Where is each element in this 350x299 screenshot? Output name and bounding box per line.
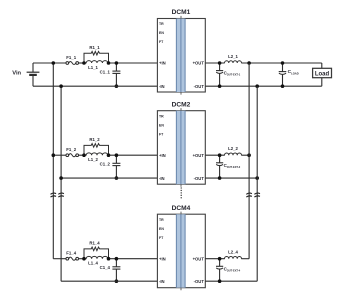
junction row1 COUT-EXT-1 bottom <box>218 84 222 88</box>
junction row2 COUT-EXT-2 bottom <box>218 176 222 180</box>
junction row2 + output bus <box>247 153 251 157</box>
fuse F1_4 <box>66 257 79 260</box>
wire row1 L2_1 to + bus <box>241 62 321 64</box>
svg-text:+IN: +IN <box>159 153 166 158</box>
wire row4 fuse to L1_4 <box>79 258 87 260</box>
wire input + bus <box>52 63 54 259</box>
svg-text:TR: TR <box>159 218 164 222</box>
junction row1 RL right node <box>107 61 111 65</box>
wire-break mark at x=257.2 <box>254 193 260 197</box>
svg-text:C1_2: C1_2 <box>100 162 111 167</box>
wire row4 +OUT to L2_4 <box>205 258 224 260</box>
svg-text:DCM1: DCM1 <box>172 9 191 16</box>
junction row2 C1_2 top <box>115 153 119 157</box>
svg-text:L2_1: L2_1 <box>228 54 238 59</box>
junction row1 RL left node <box>82 61 86 65</box>
svg-text:DCM4: DCM4 <box>172 205 191 212</box>
junction row1 + output bus <box>247 61 251 65</box>
op-amp-like module DCM1 <box>157 16 205 95</box>
junction row4 COUT-EXT-4 bottom <box>218 279 222 283</box>
junction row1 C1_1 top <box>115 61 119 65</box>
load box <box>313 68 332 77</box>
resistor R1_1 (parallel loop) <box>84 51 109 63</box>
capacitor CLOAD <box>279 63 287 86</box>
inductor L2_1 <box>225 61 242 63</box>
svg-text:EN: EN <box>159 123 164 127</box>
junction row2 RL left node <box>82 153 86 157</box>
capacitor COUT-EXT-1 <box>216 63 223 86</box>
svg-text:+OUT: +OUT <box>193 256 205 261</box>
fuse F1_1 <box>66 61 79 64</box>
wire row2 input + rail (left of fuse) <box>53 154 66 156</box>
wire output + bus <box>248 63 250 259</box>
source Vin <box>27 63 40 86</box>
svg-text:+IN: +IN <box>159 61 166 66</box>
svg-text:L1_2: L1_2 <box>88 157 98 162</box>
junction row2 RL right node <box>107 153 111 157</box>
junction row2 + input bus <box>52 153 56 157</box>
svg-text:-IN: -IN <box>159 84 165 89</box>
svg-text:+IN: +IN <box>159 256 166 261</box>
junction row1 C1_1 bottom <box>115 84 119 88</box>
wire row2 input rail <box>61 177 157 179</box>
wire row2 +OUT to L2_2 <box>205 154 224 156</box>
junction CLOAD top <box>281 61 285 65</box>
svg-text:-OUT: -OUT <box>194 84 205 89</box>
junction row2 COUT-EXT-2 top <box>218 153 222 157</box>
svg-text:L2_2: L2_2 <box>228 146 238 151</box>
resistor R1_4 (parallel loop) <box>84 247 109 259</box>
wire row1 L1_1 to +IN <box>108 62 158 64</box>
junction row4 COUT-EXT-4 top <box>218 257 222 261</box>
junction row4 RL right node <box>107 257 111 261</box>
inductor L1_1 <box>86 61 108 63</box>
fuse F1_2 <box>66 154 79 157</box>
svg-text:TR: TR <box>159 114 164 118</box>
capacitor C1_1 <box>112 63 120 86</box>
wire row1 output rail <box>205 85 321 87</box>
op-amp-like module DCM2 <box>157 108 205 187</box>
wire row1 input + rail (left of fuse) <box>33 62 66 64</box>
wire row1 input rail <box>33 85 157 87</box>
junction CLOAD bottom <box>281 84 285 88</box>
svg-text:-IN: -IN <box>159 176 165 181</box>
wire row1 fuse to L1_1 <box>79 62 87 64</box>
junction row4 C1_4 bottom <box>115 279 119 283</box>
wire row2 L1_2 to +IN <box>108 154 158 156</box>
svg-text:-OUT: -OUT <box>194 279 205 284</box>
svg-text:F1_4: F1_4 <box>66 251 76 256</box>
junction row4 C1_4 top <box>115 257 119 261</box>
wire-break mark at x=61.1 <box>58 193 64 197</box>
svg-text:F1_2: F1_2 <box>66 147 76 152</box>
wire row2 fuse to L1_2 <box>79 154 87 156</box>
continuation dots (omitted DCM3) <box>181 187 182 198</box>
junction row1 - input bus <box>59 84 63 88</box>
svg-text:DCM2: DCM2 <box>172 101 191 108</box>
svg-text:L1_1: L1_1 <box>88 65 98 70</box>
svg-text:-OUT: -OUT <box>194 176 205 181</box>
capacitor C1_2 <box>112 155 120 178</box>
svg-text:L2_4: L2_4 <box>228 250 238 255</box>
svg-text:TR: TR <box>159 22 164 26</box>
svg-text:C1_4: C1_4 <box>100 265 111 270</box>
junction row1 + input bus <box>52 61 56 65</box>
capacitor C1_4 <box>112 259 120 282</box>
svg-text:+OUT: +OUT <box>193 153 205 158</box>
wire row4 input rail <box>61 280 157 282</box>
inductor L2_4 <box>225 257 242 259</box>
junction row1 COUT-EXT-1 top <box>218 61 222 65</box>
op-amp-like module DCM4 <box>157 212 205 291</box>
wire row2 output rail <box>205 177 257 179</box>
svg-text:Load: Load <box>315 72 330 78</box>
svg-text:Vin: Vin <box>12 71 21 77</box>
junction row1 - output bus <box>255 84 259 88</box>
svg-text:EN: EN <box>159 31 164 35</box>
capacitor COUT-EXT-4 <box>216 259 223 282</box>
wire row4 input + rail (left of fuse) <box>53 258 66 260</box>
svg-text:EN: EN <box>159 227 164 231</box>
wire-break mark at x=53.3 <box>51 193 57 197</box>
svg-text:R1_4: R1_4 <box>89 241 100 246</box>
svg-text:L1_4: L1_4 <box>88 261 98 266</box>
inductor L1_2 <box>86 153 108 155</box>
junction row4 RL left node <box>82 257 86 261</box>
junction row2 C1_2 bottom <box>115 176 119 180</box>
capacitor COUT-EXT-2 <box>216 155 223 178</box>
wire input - bus <box>60 86 62 281</box>
wire-break mark at x=249.1 <box>246 193 252 197</box>
wire output - bus <box>256 86 258 281</box>
svg-text:R1_2: R1_2 <box>89 137 100 142</box>
wire row1 +OUT to L2_1 <box>205 62 224 64</box>
inductor L1_4 <box>86 256 108 258</box>
junction row2 - input bus <box>59 176 63 180</box>
wire load right end <box>321 63 323 86</box>
inductor L2_2 <box>225 153 242 155</box>
junction row2 - output bus <box>255 176 259 180</box>
svg-text:-IN: -IN <box>159 279 165 284</box>
wire row4 L1_4 to +IN <box>108 258 158 260</box>
wire row4 L2_4 to + bus <box>241 258 249 260</box>
resistor R1_2 (parallel loop) <box>84 144 109 156</box>
wire row4 output rail <box>205 280 257 282</box>
svg-text:F1_1: F1_1 <box>66 55 76 60</box>
svg-text:C1_1: C1_1 <box>100 69 111 74</box>
wire row2 L2_2 to + bus <box>241 154 249 156</box>
svg-text:+OUT: +OUT <box>193 61 205 66</box>
svg-text:R1_1: R1_1 <box>89 45 100 50</box>
